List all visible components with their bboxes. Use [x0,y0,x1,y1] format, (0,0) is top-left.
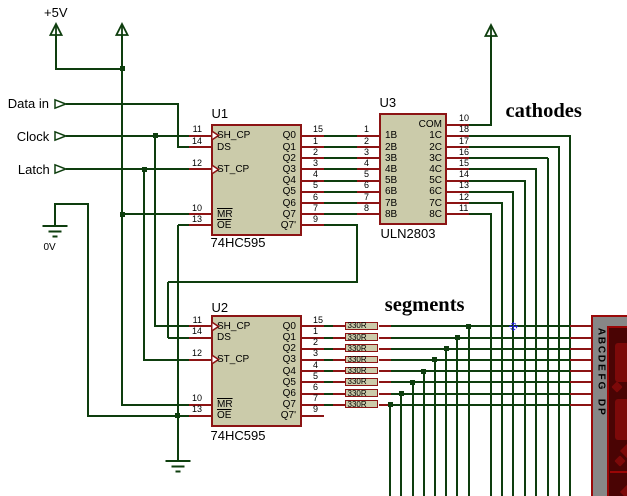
display pin label column ABCDEFG DP [596,327,605,337]
wire cathode 6C vertical down [512,192,514,496]
wire segment A to display [391,325,570,327]
wire ground rail horizontal [54,203,89,205]
ground symbol 0V left [42,225,68,238]
wire segment C vertical down [445,349,447,496]
reference label U3 [380,96,397,110]
pin number 10 of U1 pin MR (10) [188,203,202,213]
wire +5V rail horizontal [55,68,124,70]
wire +5V vertical rail to MR pins [121,36,123,406]
wire U2 Q1 to R2 [324,337,334,339]
U3 pin name 3B [385,153,397,164]
pin number 5 of U3 5B [359,169,369,179]
pin stub U3 1B (1) [357,135,379,137]
resistor R3 330R [345,344,378,352]
pin stub U3 COM (10) [447,124,469,126]
U1 pin name Q0 [216,130,296,141]
value label 330R of R1 [348,322,367,330]
pin stub U1 Q2 (2) [302,157,324,159]
wire into U1 DS [178,146,189,148]
input terminal CLOCK [54,131,67,141]
U3 pin name 4C [385,164,442,175]
pin number 9 of U2 [313,404,318,414]
pin stub U3 7B (7) [357,202,379,204]
resistor R6 330R [345,378,378,386]
pin number 11 of U3 8C [459,203,468,213]
pin stub U1 Q7´ (9) [302,224,324,226]
wire Latch horizontal to U1 ST_CP [66,168,189,170]
wire cascade horizontal [168,281,357,283]
wire segment F to display [391,381,570,383]
pin number 15 of U2 [313,315,323,325]
+5V power label [44,6,68,20]
wire Data in vertical down to U1 DS [177,104,179,148]
pin stub U3 6C (13) [447,191,469,193]
part value 74HC595 [211,236,266,250]
7-segment display bezel [591,315,627,496]
U3 pin name 5B [385,175,397,186]
pin stub U2 Q3 (3) [302,359,324,361]
U3 pin name 6B [385,186,397,197]
pin number 3 of U3 3B [359,147,369,157]
label Clock [17,130,50,144]
display pin stub F [570,381,592,383]
pin number 1 of U2 [313,326,318,336]
wire cathode 4C vertical down [535,169,537,496]
pin number 7 of U3 7B [359,192,369,202]
U2 pin name Q4 [216,366,296,377]
pin number 17 of U3 2C [459,136,469,146]
resistor R4 right lead [379,359,391,361]
U1 pin name SH_CP [217,130,250,141]
pin stub U2 pin ST_CP (12) [189,359,211,361]
U1 pin name Q3 [216,164,296,175]
wire segment H to display [391,404,570,406]
resistor R7 left lead [333,393,345,395]
resistor R1 right lead [379,325,391,327]
U1 pin name Q2 [216,153,296,164]
U3 pin name 8B [385,209,397,220]
pin number 1 of U3 1B [359,124,369,134]
display pin stub E [570,370,592,372]
wire U1 Q0 to U3 1B [324,135,357,137]
pin stub U2 Q7´ (9) [302,415,324,417]
wire into U1 OE [178,224,189,226]
reference label U1 [212,107,229,121]
wire segment D to display [391,359,570,361]
wire U1 Q3 to U3 4B [324,168,357,170]
wire U2 Q4 to R5 [324,370,334,372]
wire U2 Q2 to R3 [324,348,334,350]
pin number 6 of U1 [313,192,318,202]
pin number 4 of U2 [313,360,318,370]
pin number 6 of U2 [313,382,318,392]
pin stub U1 Q6 (6) [302,202,324,204]
U3 pin name 6C [385,186,442,197]
wire cathode 8C vertical down [490,214,492,496]
pin stub U2 Q2 (2) [302,348,324,350]
resistor R5 330R [345,367,378,375]
wire U1 Q7 to U3 8B [324,213,357,215]
pin number 2 of U3 2B [359,136,369,146]
label Latch [18,163,50,177]
resistor R4 330R [345,356,378,364]
pin stub U2 pin OE (13) [189,415,211,417]
display dot 1 (colon dot) [611,381,622,392]
wire U3 COM [469,124,492,126]
wire segment G to display [391,393,570,395]
U3 pin name 7C [385,198,442,209]
U2 pin name Q2 [216,343,296,354]
value label 330R of R7 [348,390,367,398]
U2 pin name Q5 [216,377,296,388]
pin stub U1 Q3 (3) [302,168,324,170]
pin number 4 of U1 [313,169,318,179]
resistor R6 right lead [379,381,391,383]
resistor R3 right lead [379,348,391,350]
wire U2 Q0 to R1 [324,325,334,327]
pin number 2 of U1 [313,147,318,157]
pin stub U3 8B (8) [357,213,379,215]
wire U1 Q1 to U3 2B [324,146,357,148]
pin number 3 of U1 [313,158,318,168]
U1 pin name Q5 [216,186,296,197]
pin number 12 of U3 7C [459,192,469,202]
pin stub U3 5B (5) [357,180,379,182]
resistor R4 left lead [333,359,345,361]
pin stub U3 7C (12) [447,202,469,204]
junction Latch branch [142,167,147,172]
pin stub U3 3C (16) [447,157,469,159]
resistor R6 left lead [333,381,345,383]
U1 pin name MR [217,209,233,220]
wire Clock horizontal to U1 SH_CP [66,135,189,137]
power terminal +5V #3 (COM) [484,24,498,38]
wire U3 8C horizontal [469,213,492,215]
pin stub U3 3B (3) [357,157,379,159]
pin stub U3 4C (15) [447,168,469,170]
resistor R8 330R [345,400,378,408]
pin number 14 of U3 5C [459,169,469,179]
wire cathode 2C vertical down [558,147,560,496]
display pin stub D [570,359,592,361]
U3 pin name COM [385,119,442,130]
wire U3 3C horizontal [469,157,548,159]
clock chevron U2 ST_CP [212,355,220,364]
pin number 8 of U3 8B [359,203,369,213]
IC body U3 [379,113,447,225]
clock chevron U1 SH_CP [212,131,220,140]
pin number 12 of U1 pin ST_CP (12) [188,158,202,168]
junction segment G tap [399,391,404,396]
pin stub U3 6B (6) [357,191,379,193]
wire U3 6C horizontal [469,191,514,193]
pin number 12 of U2 pin ST_CP (12) [188,348,202,358]
pin stub U1 pin OE (13) [189,224,211,226]
pin stub U1 Q7 (7) [302,213,324,215]
reference label U2 [212,301,229,315]
pin number 1 of U1 [313,136,318,146]
wire U3 4C horizontal [469,168,537,170]
resistor R7 right lead [379,393,391,395]
resistor R2 330R [345,333,378,341]
pin number 11 of U1 pin SH_CP (11) [188,124,202,134]
U1 pin name Q1 [216,142,296,153]
pin stub U1 pin DS (14) [189,146,211,148]
power terminal +5V #1 [49,23,63,37]
display segment bar lower (seg C) [615,399,627,440]
wire U1 Q4 to U3 5B [324,180,357,182]
display pin stub G [570,393,592,395]
wire U3 7C horizontal [469,202,503,204]
wire U2 Q3 to R4 [324,359,334,361]
wire segment C to display [391,348,570,350]
wire Data in horizontal [66,103,179,105]
wire into U2 ST_CP [144,359,189,361]
display corner segment mark upper [619,444,627,458]
pin number 6 of U3 6B [359,180,369,190]
display pin stub B [570,337,592,339]
wire segment E vertical down [423,371,425,496]
resistor R2 left lead [333,337,345,339]
resistor R5 left lead [333,370,345,372]
pin number 7 of U1 [313,203,318,213]
U1 pin name Q4 [216,175,296,186]
IC body U1 [211,124,303,236]
value label 330R of R8 [348,401,367,409]
input terminal DATA [54,99,67,109]
resistor R1 left lead [333,325,345,327]
pin number 5 of U1 [313,180,318,190]
wire U2 Q5 to R6 [324,381,334,383]
U1 pin name Q6 [216,198,296,209]
IC body U2 [211,315,303,427]
wire cathode 7C vertical down [501,203,503,496]
junction segment B tap [455,335,460,340]
U1 pin name Q7 [216,209,296,220]
U3 pin name 1B [385,130,397,141]
wire cascade from U1 Q7' [324,224,358,226]
wire into U2 DS [168,337,189,339]
display pin stub C [570,348,592,350]
label segments [385,295,465,317]
pin stub U1 Q5 (5) [302,191,324,193]
U2 pin name Q7 [216,399,296,410]
pin stub U2 pin MR (10) [189,404,211,406]
junction Clock branch [153,133,158,138]
U3 pin name 3C [385,153,442,164]
pin number 7 of U2 [313,393,318,403]
part value ULN2803 [381,227,436,241]
wire segment B to display [391,337,570,339]
display corner segment mark lower [619,484,627,496]
pin stub U1 pin ST_CP (12) [189,168,211,170]
U2 pin name Q3 [216,354,296,365]
7-segment display inner red area [607,326,627,496]
wire segment G vertical down [400,394,402,496]
pin stub U3 4B (4) [357,168,379,170]
resistor R3 left lead [333,348,345,350]
pin number 14 of U1 pin DS (14) [188,136,202,146]
pin stub U1 Q1 (1) [302,146,324,148]
pin number 13 of U2 pin OE (13) [188,404,202,414]
wire segment B vertical down [456,338,458,496]
resistor R2 right lead [379,337,391,339]
U1 pin name ST_CP [217,164,249,175]
U1 pin name DS [217,142,231,153]
U2 pin name OE [217,410,231,421]
ground symbol bottom [165,460,191,473]
pin number 16 of U3 3C [459,147,469,157]
U2 pin name Q7' [216,410,296,421]
wire segment A vertical down [468,326,470,496]
display dot 2 (DP dot) [615,455,626,466]
value label 330R of R5 [348,367,367,375]
input terminal LATCH [54,164,67,174]
resistor R8 right lead [379,404,391,406]
pin number 18 of U3 1C [459,124,469,134]
U3 pin name 5C [385,175,442,186]
label 0V [44,243,56,254]
wire U3 2C horizontal [469,146,560,148]
wire cathode 1C vertical down [569,136,571,496]
part value 74HC595 [211,429,266,443]
wire ground rail to OE junction [88,415,178,417]
pin stub U3 2C (17) [447,146,469,148]
wire U1 Q5 to U3 6B [324,191,357,193]
U3 pin name 2C [385,142,442,153]
display pin stub A [570,325,592,327]
pin number 15 of U1 [313,124,323,134]
value label 330R of R6 [348,378,367,386]
wire cathode 5C vertical down [524,181,526,496]
wire segment D vertical down [434,360,436,496]
wire ground rail vertical [87,204,89,417]
junction +5V to U1 MR [120,212,125,217]
wire U1 OE down to ground net [177,225,179,416]
wire U2 Q6 to R7 [324,393,334,395]
U3 pin name 7B [385,198,397,209]
pin stub U2 Q1 (1) [302,337,324,339]
display pin stub DP [570,404,592,406]
display segment bar upper (seg B) [615,343,627,382]
pin stub U2 Q7 (7) [302,404,324,406]
junction segment C tap [444,346,449,351]
pin number 4 of U3 4B [359,158,369,168]
pin number 13 of U3 6C [459,180,469,190]
U1 pin name Q7' [216,220,296,231]
pin number 5 of U2 [313,371,318,381]
pin number 11 of U2 pin SH_CP (11) [188,315,202,325]
wire Latch vertical to U2 ST_CP [143,169,145,361]
pin stub U1 pin SH_CP (11) [189,135,211,137]
junction segment D tap [432,357,437,362]
label Data in [8,97,49,111]
U1 pin name OE [217,220,231,231]
pin number 9 of U1 [313,214,318,224]
origin marker (blue cross circle) [508,321,519,332]
U2 pin name ST_CP [217,354,249,365]
junction segment F tap [410,380,415,385]
value label 330R of R2 [348,334,367,342]
wire segment E to display [391,370,570,372]
pin number 14 of U2 pin DS (14) [188,326,202,336]
pin stub U3 1C (18) [447,135,469,137]
pin stub U1 Q0 (15) [302,135,324,137]
junction OE/ground net [175,413,180,418]
junction segment A tap [466,324,471,329]
resistor R5 right lead [379,370,391,372]
U2 pin name Q1 [216,332,296,343]
wire U2 Q7 to R8 [324,404,334,406]
pin number 2 of U2 [313,337,318,347]
pin number 13 of U1 pin OE (13) [188,214,202,224]
clock chevron U1 ST_CP [212,165,220,174]
wire into U2 SH_CP [155,325,189,327]
wire cascade vertical to U2 DS [167,282,169,339]
wire segment H vertical down [389,405,391,496]
wire cascade vertical down [356,225,358,282]
wire +5V arrow1 stem [55,36,57,70]
U3 pin name 8C [385,209,442,220]
wire into U2 OE [178,415,189,417]
pin stub U1 Q4 (4) [302,180,324,182]
display digit divider [610,471,627,474]
junction segment E tap [421,369,426,374]
wire U1 Q6 to U3 7B [324,202,357,204]
wire down to bottom ground [177,416,179,460]
wire segment F vertical down [412,382,414,496]
pin stub U2 Q4 (4) [302,370,324,372]
pin stub U3 2B (2) [357,146,379,148]
wire cathode 3C vertical down [547,158,549,496]
pin stub U3 8C (11) [447,213,469,215]
wire U3 5C horizontal [469,180,526,182]
pin stub U3 5C (14) [447,180,469,182]
U2 pin name SH_CP [217,321,250,332]
label cathodes [506,101,582,123]
wire U1 Q2 to U3 3B [324,157,357,159]
resistor R8 left lead [333,404,345,406]
pin number 10 of U2 pin MR (10) [188,393,202,403]
U3 pin name 2B [385,142,397,153]
clock chevron U2 SH_CP [212,322,220,331]
wire ground stem up [54,203,56,225]
pin stub U2 pin DS (14) [189,337,211,339]
wire COM up to +5V arrow [490,36,492,125]
pin number 15 of U3 4C [459,158,469,168]
value label 330R of R3 [348,345,367,353]
wire U3 1C horizontal [469,135,571,137]
pin stub U2 Q6 (6) [302,393,324,395]
U2 pin name DS [217,332,231,343]
U3 pin name 4B [385,164,397,175]
wire Clock vertical to U2 SH_CP [154,136,156,328]
U3 pin name 1C [385,130,442,141]
wire U2 MR to +5V rail [122,404,189,406]
pin stub U2 pin SH_CP (11) [189,325,211,327]
junction segment H tap [388,402,393,407]
wire U1 MR to +5V rail [122,213,189,215]
resistor R7 330R [345,389,378,397]
U2 pin name Q6 [216,388,296,399]
pin number 3 of U2 [313,348,318,358]
value label 330R of R4 [348,356,367,364]
U2 pin name MR [217,399,233,410]
resistor R1 330R [345,322,378,330]
power terminal +5V #2 [115,23,129,37]
pin stub U2 Q5 (5) [302,381,324,383]
pin stub U2 Q0 (15) [302,325,324,327]
